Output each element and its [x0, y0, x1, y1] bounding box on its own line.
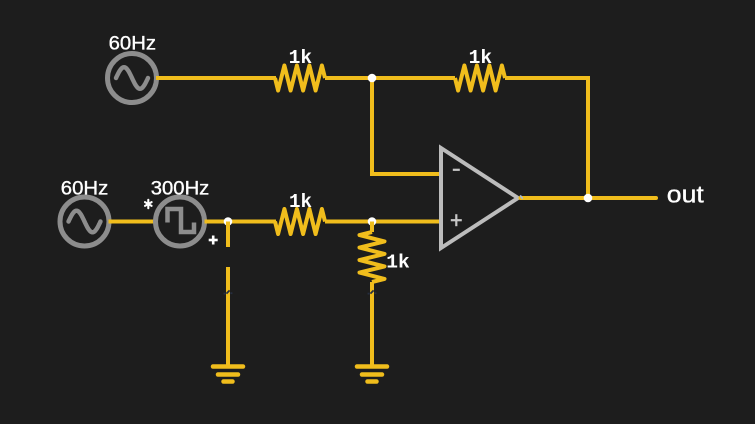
svg-text:1k: 1k [469, 47, 493, 69]
svg-text:1k: 1k [289, 191, 312, 213]
node C [368, 217, 377, 226]
svg-text:1k: 1k [289, 47, 313, 69]
current marker at op-amp output [520, 195, 523, 198]
wire [505, 78, 588, 196]
voltage source V1 60Hz (top) [108, 54, 157, 103]
wire [156, 76, 276, 80]
op-amp U1 [441, 148, 518, 248]
node OUT [584, 194, 593, 203]
wire [325, 220, 372, 224]
wire (output) [521, 196, 657, 200]
wire (feedback down from node A) [372, 78, 441, 174]
svg-text:1k: 1k [386, 251, 410, 273]
svg-text:out: out [667, 181, 704, 208]
resistor R3 1k [275, 209, 325, 234]
wire (+ input) [372, 220, 441, 224]
resistor R4 1k (vertical) [360, 222, 385, 367]
svg-text:60Hz: 60Hz [109, 34, 157, 55]
wire (node B down, upper piece) [226, 222, 230, 248]
ground GND1 [213, 367, 243, 382]
current marker on GND2 wire [368, 290, 377, 293]
voltage source V3 300Hz (square) [156, 197, 205, 246]
node A [368, 74, 377, 83]
wire (node B down to ground) [226, 267, 230, 366]
current marker on GND1 wire [224, 290, 233, 293]
wire [325, 76, 455, 80]
resistor R2 1k [455, 66, 505, 91]
resistor R1 1k [275, 66, 325, 91]
polarity marker + [209, 236, 218, 245]
wire [205, 220, 277, 224]
node B [224, 217, 233, 226]
svg-text:300Hz: 300Hz [151, 179, 210, 200]
polarity marker * [145, 200, 152, 208]
wire [109, 220, 157, 224]
svg-text:60Hz: 60Hz [61, 178, 109, 199]
ground GND2 [357, 367, 387, 382]
voltage source V2 60Hz (bottom) [60, 197, 109, 246]
